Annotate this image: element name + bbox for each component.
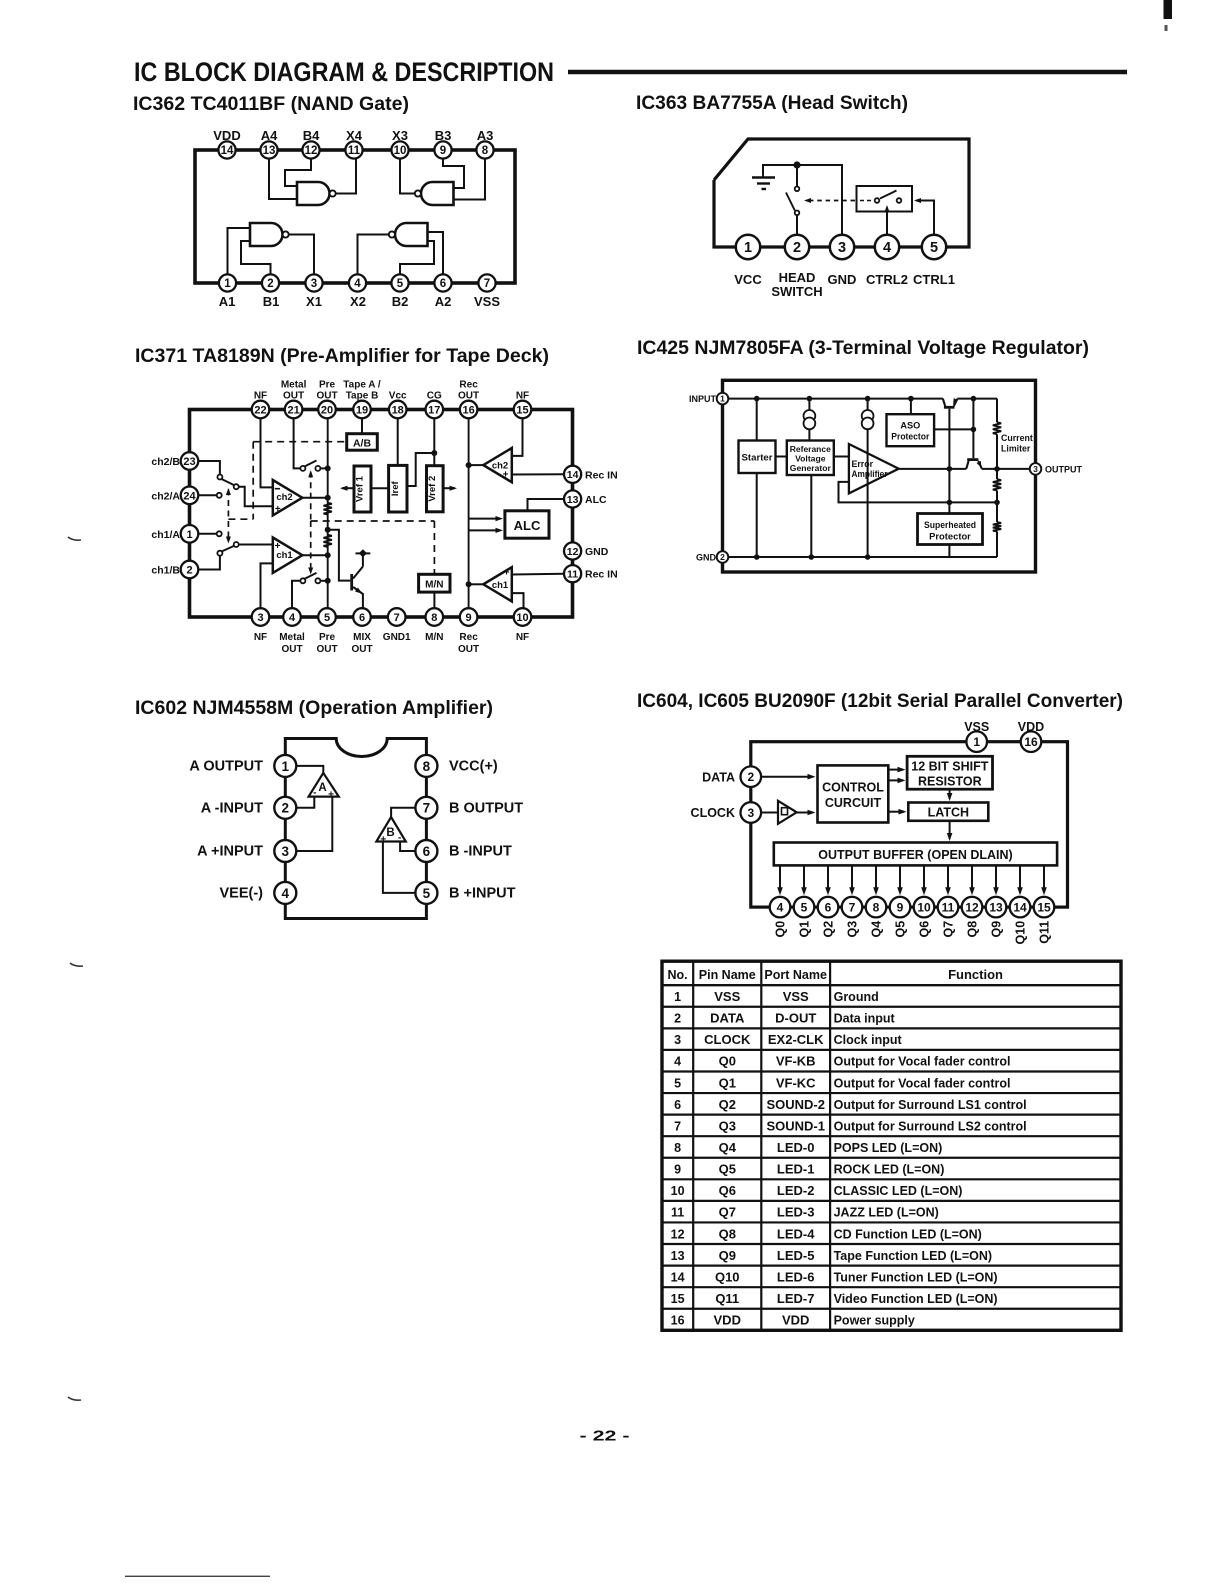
svg-text:GND: GND bbox=[696, 553, 717, 563]
svg-text:OUT: OUT bbox=[351, 644, 372, 655]
IC371 pin1 wire and contact bbox=[198, 533, 217, 535]
svg-text:A -INPUT: A -INPUT bbox=[201, 800, 263, 816]
svg-text:Q0: Q0 bbox=[774, 921, 788, 938]
svg-text:12: 12 bbox=[965, 900, 979, 914]
svg-text:LED-6: LED-6 bbox=[777, 1269, 815, 1284]
svg-text:Output for Surround LS1 contro: Output for Surround LS1 control bbox=[834, 1098, 1027, 1112]
svg-text:Q5: Q5 bbox=[894, 921, 908, 938]
svg-text:LED-1: LED-1 bbox=[777, 1162, 815, 1177]
IC371 pole to ch1 +input wire bbox=[239, 544, 273, 546]
IC362 package outline bbox=[195, 150, 515, 283]
IC371 ch1 select pole bbox=[234, 542, 239, 547]
svg-text:Output for Surround LS2 contro: Output for Surround LS2 control bbox=[834, 1119, 1027, 1133]
IC602 op-amp B bbox=[376, 817, 405, 842]
IC371 pin2 wire and contact bbox=[198, 556, 220, 570]
IC371 bottom switch contacts bbox=[300, 578, 305, 583]
svg-text:7: 7 bbox=[484, 278, 490, 290]
svg-text:VSS: VSS bbox=[714, 989, 740, 1004]
svg-text:7: 7 bbox=[394, 612, 400, 624]
IC362 gate U1B wires (pins 5,6 inputs, output to pin 4) bbox=[400, 241, 434, 274]
svg-text:1: 1 bbox=[973, 735, 980, 749]
svg-text:5: 5 bbox=[930, 240, 938, 256]
svg-text:POPS LED (L=ON): POPS LED (L=ON) bbox=[834, 1141, 943, 1155]
svg-text:D-OUT: D-OUT bbox=[775, 1011, 816, 1026]
IC371 Vref2 box bbox=[427, 466, 444, 512]
IC425 error amplifier bbox=[849, 444, 899, 493]
svg-text:B2: B2 bbox=[392, 294, 409, 309]
IC371 pin15 wire to ch2r input bbox=[512, 418, 523, 456]
IC425 superheated vertical wire bbox=[948, 469, 950, 514]
svg-text:+: + bbox=[275, 504, 281, 515]
IC363 head switch contacts on pin 2 bbox=[796, 216, 798, 241]
svg-text:2: 2 bbox=[674, 1012, 681, 1026]
IC604 control-latch arrow bbox=[888, 811, 904, 813]
IC602 op-amp B wires bbox=[391, 808, 415, 817]
IC371 rail resistor lower bbox=[324, 535, 332, 547]
svg-text:Iref: Iref bbox=[390, 480, 401, 496]
IC371 ch2 output wire bbox=[302, 497, 327, 499]
svg-text:11: 11 bbox=[671, 1206, 684, 1220]
svg-text:Data input: Data input bbox=[834, 1012, 896, 1026]
IC371 rec rail pin16 to pin9 bbox=[468, 418, 470, 608]
svg-text:A: A bbox=[318, 782, 326, 794]
IC425 output wire bbox=[899, 468, 967, 470]
svg-text:1: 1 bbox=[674, 990, 681, 1004]
svg-text:4: 4 bbox=[883, 240, 891, 256]
IC371 pin18 wire to Iref bbox=[397, 418, 399, 465]
svg-text:7: 7 bbox=[849, 900, 856, 914]
IC425 pin3 OUTPUT bbox=[1030, 463, 1042, 475]
svg-text:ch1: ch1 bbox=[492, 580, 509, 591]
svg-text:B +INPUT: B +INPUT bbox=[449, 886, 516, 902]
svg-text:3: 3 bbox=[838, 240, 846, 256]
svg-text:8: 8 bbox=[423, 759, 431, 774]
svg-text:+: + bbox=[504, 568, 510, 579]
svg-text:OUT: OUT bbox=[281, 644, 302, 655]
svg-text:Voltage: Voltage bbox=[795, 454, 826, 464]
svg-text:11: 11 bbox=[567, 568, 578, 580]
svg-text:SWITCH: SWITCH bbox=[771, 284, 822, 299]
IC602 right pins 8-5 bbox=[415, 755, 437, 777]
svg-text:INPUT: INPUT bbox=[689, 394, 717, 404]
svg-text:Generator: Generator bbox=[790, 463, 832, 473]
svg-text:12: 12 bbox=[567, 546, 579, 558]
svg-text:13: 13 bbox=[263, 145, 276, 157]
svg-text:4: 4 bbox=[282, 886, 290, 901]
IC425 starter vertical wires bbox=[756, 399, 758, 441]
IC371 right pins bbox=[564, 466, 581, 483]
svg-text:LED-2: LED-2 bbox=[777, 1183, 815, 1198]
svg-text:Starter: Starter bbox=[742, 453, 773, 464]
IC425 current source 1 bbox=[808, 399, 810, 411]
IC371 pin24 wire and contact bbox=[198, 494, 217, 496]
svg-text:Q11: Q11 bbox=[1038, 921, 1052, 944]
IC371 amplifier ch1 right bbox=[483, 567, 512, 601]
IC371 rail junction dots bbox=[325, 465, 331, 471]
IC604 pin16 VDD bbox=[1021, 731, 1042, 752]
svg-text:DATA: DATA bbox=[710, 1011, 745, 1026]
svg-text:SOUND-2: SOUND-2 bbox=[766, 1097, 825, 1112]
svg-text:Protector: Protector bbox=[929, 531, 971, 542]
svg-text:DATA: DATA bbox=[702, 770, 735, 784]
IC371 ch1r -input wire to pin10 bbox=[512, 593, 524, 608]
IC425 current source 2 bbox=[867, 399, 869, 411]
svg-text:RESISTOR: RESISTOR bbox=[918, 775, 982, 789]
svg-text:Video Function LED (L=ON): Video Function LED (L=ON) bbox=[834, 1292, 998, 1306]
svg-text:Port Name: Port Name bbox=[764, 968, 827, 982]
svg-text:6: 6 bbox=[440, 278, 446, 290]
svg-text:Superheated: Superheated bbox=[924, 519, 976, 530]
svg-text:8: 8 bbox=[674, 1141, 681, 1155]
svg-text:Clock input: Clock input bbox=[834, 1033, 903, 1047]
IC363 package outline with chamfered corner bbox=[714, 139, 969, 247]
svg-text:Q5: Q5 bbox=[719, 1162, 736, 1177]
svg-text:SOUND-1: SOUND-1 bbox=[766, 1118, 825, 1133]
IC425 rail junction dots bbox=[754, 396, 760, 402]
svg-text:LED-3: LED-3 bbox=[777, 1205, 815, 1220]
svg-text:ch2: ch2 bbox=[276, 492, 292, 503]
IC425 top rail from pin1 bbox=[728, 398, 943, 400]
IC604 control-shift arrows bbox=[888, 769, 903, 771]
svg-text:VDD: VDD bbox=[714, 1313, 741, 1328]
svg-text:Q3: Q3 bbox=[846, 921, 860, 938]
svg-text:CLOCK: CLOCK bbox=[704, 1032, 751, 1047]
svg-text:15: 15 bbox=[1037, 900, 1051, 914]
svg-text:22: 22 bbox=[254, 404, 266, 416]
IC602 left pins 1-4 bbox=[274, 755, 296, 777]
svg-text:17: 17 bbox=[428, 404, 440, 416]
svg-text:ASO: ASO bbox=[900, 421, 920, 431]
svg-text:2: 2 bbox=[720, 552, 725, 562]
IC604 shift register box bbox=[907, 756, 992, 789]
IC604 data arrow to control circuit bbox=[762, 776, 813, 778]
svg-text:VSS: VSS bbox=[474, 294, 500, 309]
IC425 Superheated Protector box bbox=[918, 514, 983, 545]
IC371 ch1 output wire bbox=[302, 554, 327, 556]
svg-text:LED-4: LED-4 bbox=[777, 1226, 815, 1241]
svg-text:B -INPUT: B -INPUT bbox=[449, 844, 512, 860]
IC604 latch box bbox=[908, 803, 988, 821]
IC371 pin4 wire to bottom switch bbox=[292, 581, 300, 608]
svg-text:3: 3 bbox=[311, 278, 317, 290]
IC371 dashed control to bottom switch bbox=[310, 521, 312, 573]
IC371 transistor Q1 bbox=[350, 574, 353, 591]
IC604 pin3 CLOCK bbox=[741, 802, 762, 823]
svg-text:14: 14 bbox=[221, 145, 234, 157]
svg-text:6: 6 bbox=[423, 844, 431, 859]
IC604 control circuit box bbox=[818, 765, 889, 822]
IC604 output arrows to pins bbox=[779, 865, 781, 892]
svg-text:11: 11 bbox=[942, 900, 955, 914]
svg-text:Amplifier: Amplifier bbox=[852, 469, 889, 479]
svg-text:+: + bbox=[380, 835, 386, 846]
svg-text:Error: Error bbox=[852, 459, 874, 469]
svg-text:Output for Vocal fader control: Output for Vocal fader control bbox=[834, 1055, 1011, 1069]
IC371 ALC box bbox=[505, 511, 549, 538]
svg-text:B1: B1 bbox=[263, 294, 280, 309]
svg-text:A/B: A/B bbox=[353, 438, 372, 450]
IC371 Q1 collector tap bar bbox=[356, 552, 371, 554]
svg-text:14: 14 bbox=[671, 1270, 685, 1284]
svg-text:20: 20 bbox=[321, 404, 333, 416]
svg-text:Tape A /: Tape A / bbox=[343, 379, 381, 390]
svg-text:Q10: Q10 bbox=[1014, 921, 1028, 945]
IC602 package outline with index notch bbox=[285, 739, 426, 919]
svg-text:8: 8 bbox=[873, 900, 880, 914]
IC604 buffer to control arrow bbox=[797, 812, 812, 814]
svg-text:M/N: M/N bbox=[425, 580, 443, 591]
svg-text:Metal: Metal bbox=[281, 379, 307, 390]
svg-text:1: 1 bbox=[282, 759, 290, 774]
svg-text:ch2/A: ch2/A bbox=[151, 491, 180, 503]
svg-text:1: 1 bbox=[186, 529, 192, 541]
svg-text:ALC: ALC bbox=[585, 494, 607, 506]
IC362 gate U1D wires (pins 12,13 to inputs, output to pin 11) bbox=[269, 158, 297, 199]
svg-text:LED-0: LED-0 bbox=[777, 1140, 815, 1155]
IC363 control switch contacts and lever bbox=[875, 198, 880, 203]
IC371 ch1 -input wire to pin 3 bbox=[261, 563, 273, 608]
svg-text:3: 3 bbox=[747, 806, 754, 820]
IC371 Iref to Vref2 wire bbox=[407, 453, 434, 486]
svg-text:Q9: Q9 bbox=[990, 921, 1004, 938]
svg-text:Current: Current bbox=[1001, 433, 1033, 443]
svg-text:OUTPUT: OUTPUT bbox=[1045, 465, 1083, 475]
IC604 bottom pins 4-15 bbox=[770, 897, 791, 918]
IC604 clock buffer bbox=[778, 801, 797, 824]
IC425 current limiter resistor chain bbox=[996, 399, 998, 423]
svg-text:1: 1 bbox=[720, 394, 725, 404]
svg-text:8: 8 bbox=[431, 612, 437, 624]
IC363 dashed control link arrow bbox=[809, 200, 856, 202]
svg-text:Q6: Q6 bbox=[719, 1183, 736, 1198]
svg-text:3: 3 bbox=[1033, 464, 1038, 474]
svg-text:Q6: Q6 bbox=[918, 921, 932, 938]
IC604 clock buffer wire bbox=[762, 812, 779, 814]
svg-text:B OUTPUT: B OUTPUT bbox=[449, 800, 523, 816]
svg-text:- 22 -: - 22 - bbox=[580, 1428, 630, 1445]
svg-text:Q0: Q0 bbox=[719, 1054, 736, 1069]
svg-text:10: 10 bbox=[516, 612, 528, 624]
IC425 vertical rail to Q2 bbox=[972, 399, 974, 459]
IC371 Vref1 box bbox=[354, 466, 371, 512]
svg-text:6: 6 bbox=[359, 612, 365, 624]
IC371 metal switch contacts top bbox=[300, 466, 305, 471]
svg-text:GND1: GND1 bbox=[383, 632, 411, 643]
svg-text:2: 2 bbox=[282, 801, 290, 816]
svg-text:X2: X2 bbox=[350, 294, 366, 309]
svg-text:3: 3 bbox=[674, 1033, 681, 1047]
svg-text:A OUTPUT: A OUTPUT bbox=[189, 759, 263, 775]
svg-text:VDD: VDD bbox=[782, 1313, 809, 1328]
IC371 Iref box bbox=[389, 465, 407, 512]
title rule line bbox=[568, 70, 1127, 75]
svg-text:+: + bbox=[275, 541, 281, 552]
svg-text:LED-5: LED-5 bbox=[777, 1248, 815, 1263]
IC371 transistor Q1 base wire bbox=[328, 530, 351, 581]
IC371 metal switch lever top bbox=[305, 461, 317, 467]
svg-text:7: 7 bbox=[674, 1119, 681, 1133]
svg-text:Q2: Q2 bbox=[822, 921, 836, 938]
svg-text:Metal: Metal bbox=[279, 632, 305, 643]
svg-text:Q4: Q4 bbox=[870, 921, 884, 938]
IC371 M/N box bbox=[419, 574, 450, 592]
svg-text:9: 9 bbox=[897, 900, 904, 914]
IC371 amplifier ch1 left bbox=[273, 538, 303, 573]
IC604 package outline bbox=[751, 742, 1068, 907]
svg-text:VCC: VCC bbox=[734, 272, 762, 287]
IC371 A/B box and wire to pin 19 bbox=[361, 418, 363, 434]
IC425 ASO protector drop wire bbox=[910, 399, 912, 415]
svg-text:16: 16 bbox=[462, 404, 474, 416]
svg-text:Q3: Q3 bbox=[719, 1118, 736, 1133]
svg-text:3: 3 bbox=[282, 844, 290, 859]
IC363 node junction at pin2 top bbox=[793, 161, 800, 168]
svg-text:12 BIT SHIFT: 12 BIT SHIFT bbox=[911, 760, 988, 774]
svg-text:3: 3 bbox=[257, 612, 263, 624]
svg-text:1: 1 bbox=[224, 278, 231, 290]
svg-text:CURCUIT: CURCUIT bbox=[825, 796, 882, 810]
svg-text:5: 5 bbox=[674, 1076, 681, 1090]
svg-text:IC604, IC605 BU2090F (12bit S: IC604, IC605 BU2090F (12bit Serial Paral… bbox=[637, 690, 1123, 712]
svg-text:Q2: Q2 bbox=[719, 1097, 736, 1112]
IC425 pin2 GND bbox=[717, 551, 729, 563]
svg-text:Referance: Referance bbox=[790, 444, 831, 454]
IC425 ground rail from pin2 bbox=[728, 556, 997, 558]
IC371 dashed M/N control line bbox=[311, 520, 435, 522]
svg-text:OUT: OUT bbox=[458, 644, 479, 655]
IC371 rail resistor upper bbox=[324, 503, 332, 515]
IC602 op-amp A bbox=[309, 773, 339, 797]
svg-text:2: 2 bbox=[793, 240, 801, 256]
IC371 dashed control line to input switches bbox=[227, 490, 229, 543]
IC371 ch2 select pole bbox=[234, 484, 239, 489]
svg-text:A1: A1 bbox=[219, 294, 236, 309]
svg-text:Ground: Ground bbox=[834, 990, 879, 1004]
margin squiggle 2 bbox=[70, 963, 83, 966]
IC363 control switch box bbox=[857, 186, 913, 212]
IC425 refgen to error amp link bbox=[834, 456, 849, 458]
IC371 dashed control to top switch bbox=[310, 472, 312, 520]
svg-text:A +INPUT: A +INPUT bbox=[197, 844, 263, 860]
IC371 package outline bbox=[190, 410, 573, 618]
svg-text:VF-KB: VF-KB bbox=[776, 1054, 816, 1069]
bottom blue rule bbox=[125, 1576, 270, 1577]
IC604 latch-buffer arrow bbox=[949, 821, 951, 839]
IC363 ground symbol bbox=[762, 165, 764, 178]
IC371 ch2 input select lever bbox=[222, 479, 234, 485]
svg-text:2: 2 bbox=[186, 564, 192, 576]
IC362 gate U1C wires (pins 8,9 inputs, output to pin 10) bbox=[400, 158, 417, 194]
svg-text:CONTROL: CONTROL bbox=[822, 781, 884, 795]
svg-text:Q1: Q1 bbox=[719, 1075, 736, 1090]
svg-text:MIX: MIX bbox=[353, 632, 371, 643]
svg-text:10: 10 bbox=[917, 900, 931, 914]
svg-text:9: 9 bbox=[440, 145, 446, 157]
svg-text:14: 14 bbox=[567, 469, 579, 481]
IC602 op-amp A wires bbox=[296, 766, 323, 773]
svg-text:16: 16 bbox=[671, 1314, 685, 1328]
IC371 Vref2 right arrow bbox=[443, 487, 455, 489]
svg-text:Tuner Function LED (L=ON): Tuner Function LED (L=ON) bbox=[834, 1270, 998, 1284]
svg-text:15: 15 bbox=[516, 404, 528, 416]
IC371 dashed bottom link bbox=[228, 518, 253, 520]
IC371 M/N wire to pin8 bbox=[433, 592, 435, 608]
svg-text:ALC: ALC bbox=[514, 518, 541, 533]
IC371 ch2r +input wire to pin14 bbox=[512, 473, 564, 475]
svg-text:5: 5 bbox=[801, 900, 808, 914]
svg-text:Power supply: Power supply bbox=[834, 1314, 915, 1328]
IC362 bottom pins 1-7 bbox=[219, 274, 236, 291]
IC604 shift-latch arrow bbox=[949, 789, 951, 799]
IC371 top pins 22-15 bbox=[252, 401, 270, 419]
IC425 error amp feedback wire bbox=[839, 482, 998, 503]
svg-text:Q10: Q10 bbox=[715, 1269, 740, 1284]
svg-text:VF-KC: VF-KC bbox=[776, 1075, 816, 1090]
svg-text:6: 6 bbox=[825, 900, 832, 914]
svg-text:4: 4 bbox=[674, 1055, 681, 1069]
corner registration bar bbox=[1164, 0, 1173, 19]
IC604 output buffer box bbox=[774, 843, 1057, 866]
svg-text:10: 10 bbox=[394, 145, 407, 157]
IC371 bottom pins 3-10 bbox=[252, 608, 270, 626]
IC371 pre-out rail pin20 to pin5 bbox=[327, 418, 329, 608]
svg-text:JAZZ LED (L=ON): JAZZ LED (L=ON) bbox=[834, 1206, 939, 1220]
IC425 transistor Q2 bbox=[967, 458, 978, 461]
svg-text:OUTPUT BUFFER (OPEN DLAIN): OUTPUT BUFFER (OPEN DLAIN) bbox=[818, 848, 1012, 862]
svg-text:12: 12 bbox=[671, 1227, 685, 1241]
svg-text:X1: X1 bbox=[306, 294, 322, 309]
svg-text:11: 11 bbox=[348, 145, 361, 157]
IC425 pin1 INPUT bbox=[717, 393, 729, 405]
svg-text:GND: GND bbox=[828, 272, 857, 287]
IC363 pin5 wire into box right side bbox=[916, 201, 934, 241]
IC371 amplifier ch2 right bbox=[483, 448, 512, 482]
IC371 Vref1 left arrow bbox=[342, 487, 354, 489]
svg-text:ROCK LED (L=ON): ROCK LED (L=ON) bbox=[834, 1163, 945, 1177]
svg-text:IC425 NJM7805FA (3-Terminal: IC425 NJM7805FA (3-Terminal Voltage Regu… bbox=[637, 337, 1089, 359]
svg-text:VSS: VSS bbox=[783, 989, 809, 1004]
svg-text:VCC(+): VCC(+) bbox=[449, 759, 498, 775]
IC371 metal switch to rail bbox=[320, 467, 327, 469]
svg-text:Rec IN: Rec IN bbox=[585, 569, 618, 581]
IC425 starter-refgen link bbox=[776, 456, 787, 458]
svg-text:12: 12 bbox=[305, 145, 318, 157]
svg-text:Q7: Q7 bbox=[942, 921, 956, 938]
IC363 head switch lever bbox=[786, 193, 795, 211]
svg-text:-: - bbox=[313, 788, 316, 799]
pin function table bbox=[662, 961, 1121, 1330]
svg-text:Q8: Q8 bbox=[719, 1226, 736, 1241]
svg-text:IC602 NJM4558M (Operation Am: IC602 NJM4558M (Operation Amplifier) bbox=[135, 697, 493, 719]
IC371 amplifier ch2 left bbox=[273, 480, 303, 515]
IC363 internal ground wire and node bbox=[763, 165, 842, 240]
svg-text:Limiter: Limiter bbox=[1001, 444, 1031, 454]
svg-text:IC363 BA7755A (Head Switch): IC363 BA7755A (Head Switch) bbox=[636, 92, 908, 114]
svg-text:2: 2 bbox=[747, 770, 754, 784]
svg-text:19: 19 bbox=[356, 404, 368, 416]
svg-text:Tape Function LED (L=ON): Tape Function LED (L=ON) bbox=[834, 1249, 992, 1263]
svg-text:6: 6 bbox=[674, 1098, 681, 1112]
svg-text:23: 23 bbox=[183, 456, 195, 468]
svg-text:Vref 2: Vref 2 bbox=[427, 476, 438, 502]
svg-text:+: + bbox=[328, 790, 334, 801]
svg-text:CLASSIC LED (L=ON): CLASSIC LED (L=ON) bbox=[834, 1184, 963, 1198]
IC371 left pins bbox=[181, 452, 199, 470]
IC425 package outline bbox=[723, 380, 1036, 572]
svg-text:4: 4 bbox=[289, 612, 296, 624]
svg-text:IC BLOCK DIAGRAM & DESCRIPTI: IC BLOCK DIAGRAM & DESCRIPTION bbox=[134, 57, 554, 87]
IC604 pin2 DATA bbox=[741, 766, 762, 787]
